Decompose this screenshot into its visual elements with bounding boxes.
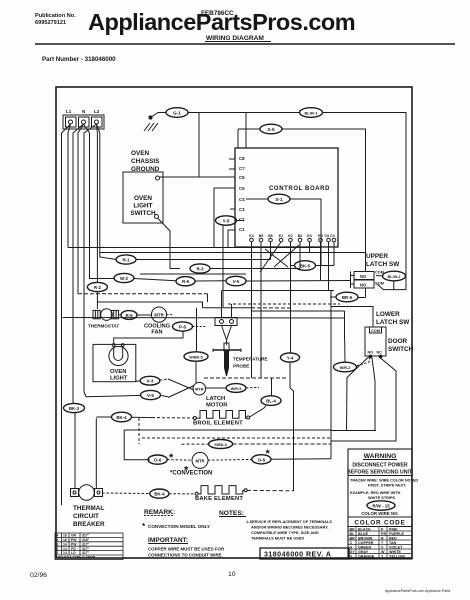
wire label BK-3	[64, 403, 85, 412]
svg-text:V-5: V-5	[147, 393, 154, 398]
wire label example R/W-15	[361, 501, 399, 516]
wire ground to G-1	[151, 113, 167, 118]
svg-text:Y-5: Y-5	[223, 219, 230, 224]
wire crossing diagonals	[274, 245, 299, 267]
wire label V-5	[86, 390, 168, 399]
wire label BK-4 broil	[96, 412, 194, 422]
svg-text:C6: C6	[239, 175, 245, 180]
svg-text:02/96: 02/96	[30, 572, 47, 579]
svg-text:OVEN: OVEN	[110, 369, 126, 375]
svg-text:Y-4: Y-4	[287, 356, 294, 361]
svg-text:1-SERVICE IF REPLACEMENT OF TE: 1-SERVICE IF REPLACEMENT OF TERMINALS	[246, 519, 332, 524]
warning tracer wire text	[350, 479, 418, 501]
svg-text:V-3: V-3	[147, 379, 154, 384]
wire label S/BK-3	[182, 358, 397, 449]
svg-text:3: 3	[57, 542, 59, 546]
wire label O-6	[148, 455, 192, 464]
wire bus y304 dashed	[228, 303, 340, 305]
svg-text:18: 18	[63, 534, 67, 538]
wire bus y290	[222, 290, 334, 292]
svg-text:PURPLE: PURPLE	[389, 532, 404, 536]
wire label S-5	[238, 124, 366, 271]
svg-text:FIRST, STRIPE NEXT.: FIRST, STRIPE NEXT.	[368, 484, 406, 488]
svg-text:P-5: P-5	[179, 325, 187, 330]
svg-text:PG: PG	[71, 547, 76, 551]
svg-text:BL/R-1: BL/R-1	[305, 111, 319, 116]
svg-text:SWITCH: SWITCH	[388, 346, 414, 353]
svg-text:B5: B5	[259, 234, 264, 238]
wire bake right run	[247, 489, 294, 491]
svg-text:R-5: R-5	[182, 279, 190, 284]
door switch	[365, 327, 414, 358]
wire label W/R-2	[334, 340, 370, 372]
svg-text:BREAKER: BREAKER	[73, 521, 105, 528]
important block	[148, 537, 225, 558]
svg-text:LIGHT: LIGHT	[133, 203, 152, 210]
svg-text:LATCH SW: LATCH SW	[366, 261, 400, 268]
svg-text:REMARK:: REMARK:	[144, 509, 175, 516]
svg-text:COMPATIBLE WIRE TYPE, SIZE AND: COMPATIBLE WIRE TYPE, SIZE AND	[251, 530, 319, 535]
wire label W/R-5	[206, 384, 259, 393]
svg-text:E1: E1	[279, 234, 283, 238]
svg-text:N: N	[82, 109, 86, 114]
svg-text:BL-4: BL-4	[266, 399, 276, 404]
revision box 318046000 REV. A	[260, 548, 349, 559]
svg-text:GRAY: GRAY	[358, 550, 369, 554]
svg-text:16: 16	[63, 538, 67, 542]
wire label W/BK-5	[184, 308, 208, 383]
svg-text:318°: 318°	[82, 538, 90, 542]
svg-text:AND/OR WIRING BECOMES NECESSAR: AND/OR WIRING BECOMES NECESSARY,	[251, 525, 328, 530]
oven light lamp	[109, 344, 128, 382]
notes block	[219, 510, 332, 541]
svg-text:C3: C3	[239, 207, 245, 212]
svg-text:MTR: MTR	[195, 387, 204, 392]
wire bus y311	[252, 310, 345, 312]
svg-text:LD: LD	[71, 551, 76, 555]
svg-text:BEFORE SERVICING UNIT.: BEFORE SERVICING UNIT.	[347, 470, 413, 476]
wire label BR-5	[330, 288, 366, 302]
color code table	[348, 517, 412, 527]
wire label R-5 mid	[176, 277, 226, 286]
wire label R-2	[87, 282, 107, 291]
svg-text:FAN: FAN	[151, 330, 162, 336]
wire W/R-2 riser	[344, 311, 346, 340]
thermostat	[88, 309, 119, 329]
wire loop to convection	[124, 430, 150, 460]
svg-text:THERMOSTAT: THERMOSTAT	[88, 324, 119, 329]
svg-text:BK-4: BK-4	[154, 492, 165, 497]
wire L1 drop a	[62, 124, 71, 505]
wire N drop d	[78, 124, 84, 294]
svg-text:1: 1	[57, 551, 59, 555]
svg-text:4: 4	[57, 534, 59, 538]
svg-text:317°: 317°	[82, 542, 90, 546]
svg-text:W/R-2: W/R-2	[340, 366, 351, 370]
svg-text:C7: C7	[239, 166, 245, 171]
svg-text:PW: PW	[71, 542, 77, 546]
wire bus y307	[203, 307, 252, 309]
svg-text:G: G	[350, 545, 353, 549]
svg-text:BLACK: BLACK	[358, 527, 371, 531]
wire R-1 riser	[97, 124, 117, 260]
wire L1 drop b	[68, 124, 71, 248]
svg-text:PR: PR	[381, 532, 386, 536]
svg-text:DOOR: DOOR	[388, 338, 408, 345]
wire label P-5	[114, 322, 206, 345]
svg-text:E2: E2	[288, 234, 292, 238]
wire label BL-4	[250, 378, 282, 417]
wire BK-3 to breaker	[74, 413, 76, 488]
svg-text:R-2: R-2	[94, 285, 102, 290]
svg-text:UPPER: UPPER	[366, 253, 388, 260]
svg-text:BK-5: BK-5	[300, 264, 311, 269]
wire BL-4 top run	[204, 377, 288, 379]
wire label R-5 thermostat	[119, 311, 152, 320]
svg-text:R/W - 15: R/W - 15	[372, 504, 390, 509]
svg-text:BL: BL	[350, 532, 356, 536]
svg-text:CHASSIS: CHASSIS	[131, 158, 160, 165]
svg-text:14: 14	[63, 547, 67, 551]
svg-text:SWITCH: SWITCH	[130, 210, 156, 217]
wire bus y294 dashed	[78, 293, 208, 295]
wire bus y430 long	[124, 429, 331, 431]
svg-text:FEB786CC: FEB786CC	[201, 10, 234, 17]
svg-text:C4: C4	[239, 197, 245, 202]
svg-text:CONNECTIONS TO CONDUIT WIRE.: CONNECTIONS TO CONDUIT WIRE.	[148, 553, 223, 558]
wire label V-5 mid	[226, 276, 351, 285]
svg-text:L1: L1	[66, 109, 72, 114]
svg-text:BLUE: BLUE	[358, 532, 369, 536]
thermal circuit breaker	[71, 485, 105, 528]
wire bus y317	[63, 317, 345, 320]
wire gauge table bottom left	[55, 533, 123, 560]
convection motor	[169, 448, 271, 477]
svg-text:PINK: PINK	[389, 527, 398, 531]
wire label V-3	[136, 376, 169, 385]
svg-text:G-1: G-1	[173, 111, 181, 116]
svg-text:*: *	[266, 448, 271, 460]
oven light enclosure box	[93, 344, 136, 381]
wire S-1 drop	[320, 248, 322, 266]
svg-text:OVEN: OVEN	[134, 195, 152, 202]
svg-text:LATCH: LATCH	[206, 396, 225, 402]
svg-text:TRACER WIRE: WIRE COLOR NOTED: TRACER WIRE: WIRE COLOR NOTED	[350, 479, 418, 483]
svg-text:GREEN: GREEN	[358, 545, 371, 549]
svg-text:*CONVECTION: *CONVECTION	[170, 471, 212, 477]
wire pin drops	[251, 242, 253, 378]
wire C5 stub	[214, 188, 235, 248]
svg-text:IMPORTANT:: IMPORTANT:	[148, 537, 188, 544]
svg-text:C9 C0: C9 C0	[324, 234, 334, 238]
svg-text:2: 2	[57, 538, 59, 542]
svg-text:*: *	[169, 452, 174, 464]
svg-text:BK-4: BK-4	[116, 415, 127, 420]
svg-text:THERMAL: THERMAL	[73, 505, 104, 512]
svg-text:DISCONNECT POWER: DISCONNECT POWER	[352, 463, 408, 469]
wire Y-5 drop	[222, 226, 224, 307]
svg-text:COM: COM	[375, 271, 384, 275]
wire label O-5	[208, 455, 331, 464]
svg-text:CONVECTION MODEL ONLY: CONVECTION MODEL ONLY	[148, 524, 210, 529]
svg-text:BK: BK	[350, 527, 356, 531]
control board left pins C8-C1	[239, 156, 245, 232]
svg-text:CONTROL BOARD: CONTROL BOARD	[269, 186, 330, 192]
wire bus y274	[140, 273, 246, 275]
wire label R-1	[116, 255, 271, 264]
svg-text:GN: GN	[71, 534, 77, 538]
svg-text:COM: COM	[371, 329, 380, 333]
svg-text:YELLOW: YELLOW	[389, 554, 405, 558]
wire label Y-4	[281, 353, 300, 362]
wire R-2 to thermostat	[96, 292, 98, 309]
svg-text:NC: NC	[377, 351, 383, 355]
control board bottom pin labels	[249, 234, 334, 238]
wire oven light switch to R-3	[158, 219, 180, 269]
wire N drop c	[73, 124, 84, 403]
svg-text:ORANGE: ORANGE	[358, 554, 375, 558]
svg-text:COLOR CODE: COLOR CODE	[354, 520, 405, 527]
svg-text:317°: 317°	[82, 547, 90, 551]
svg-text:OVEN: OVEN	[131, 150, 149, 157]
svg-text:COPPER WIRE MUST BE USED FOR: COPPER WIRE MUST BE USED FOR	[148, 547, 225, 552]
svg-text:E4: E4	[249, 234, 253, 238]
lower latch switch label	[376, 311, 410, 326]
wire label BL/R-1	[188, 108, 406, 290]
wire C7 stub	[229, 168, 235, 170]
svg-text:B6: B6	[268, 234, 273, 238]
wire label BK-4 bake	[102, 489, 195, 498]
wire bus y252	[100, 252, 365, 254]
svg-text:6995279121: 6995279121	[35, 20, 66, 26]
svg-text:BAKE ELEMENT: BAKE ELEMENT	[195, 496, 243, 502]
control board bottom pins	[250, 238, 336, 242]
svg-text:BR-5: BR-5	[342, 295, 353, 300]
svg-text:WHITE STRIPE.: WHITE STRIPE.	[368, 496, 396, 500]
svg-text:R-3: R-3	[196, 267, 204, 272]
svg-text:EXAMPLE: RED WIRE WITH: EXAMPLE: RED WIRE WITH	[350, 491, 401, 495]
svg-text:O: O	[350, 554, 353, 558]
svg-text:NO: NO	[360, 274, 367, 279]
wire probe drops	[221, 291, 223, 318]
latch motor	[193, 382, 228, 408]
svg-text:MTR: MTR	[154, 313, 164, 318]
svg-text:318046000 REV. A: 318046000 REV. A	[264, 552, 331, 559]
temperature probe connector	[215, 318, 237, 341]
svg-text:TEMPERATURE: TEMPERATURE	[233, 357, 268, 362]
svg-text:BROIL ELEMENT: BROIL ELEMENT	[193, 421, 243, 427]
oven light switch	[123, 172, 163, 223]
wire BK-4 down to breaker right	[95, 418, 97, 488]
wire C6 to G-1 junction	[199, 176, 235, 178]
svg-text:CIRCUIT: CIRCUIT	[73, 513, 99, 520]
svg-text:E5: E5	[318, 234, 322, 238]
svg-text:Publication No.: Publication No.	[35, 13, 76, 19]
svg-text:*: *	[142, 522, 146, 531]
svg-text:S-5: S-5	[267, 127, 275, 132]
wire label W-2	[114, 273, 176, 282]
wire C1 stub	[228, 230, 235, 248]
svg-text:C8: C8	[239, 156, 245, 161]
broil element	[193, 411, 250, 427]
svg-text:NO: NO	[360, 283, 367, 288]
svg-text:O-5: O-5	[258, 457, 266, 462]
svg-text:LOWER: LOWER	[376, 311, 400, 318]
latch motor crossing wires	[168, 379, 194, 398]
svg-text:R-1: R-1	[122, 258, 130, 263]
wire L2 drop e	[84, 124, 97, 397]
control board	[235, 148, 338, 247]
svg-text:BR: BR	[350, 536, 356, 540]
wire label R-3	[190, 264, 300, 273]
wire dashed y438	[142, 437, 332, 439]
svg-text:10: 10	[228, 571, 236, 578]
svg-text:TAN: TAN	[389, 541, 397, 545]
svg-text:E3: E3	[307, 234, 311, 238]
svg-text:WHITE: WHITE	[389, 550, 401, 554]
wire bus y264 BK-5	[291, 261, 335, 271]
wire dashed S/BK-3 feed	[138, 418, 140, 444]
svg-text:V-5: V-5	[233, 279, 240, 284]
oven chassis ground symbol	[131, 116, 160, 173]
svg-text:GY: GY	[350, 550, 356, 554]
warning box	[347, 449, 413, 559]
svg-text:NO: NO	[368, 351, 374, 355]
svg-text:14: 14	[63, 551, 67, 555]
svg-text:COLOR WIRE NO.: COLOR WIRE NO.	[361, 511, 399, 516]
wire W-2 riser	[84, 124, 115, 279]
svg-text:2: 2	[57, 547, 59, 551]
svg-text:RED: RED	[389, 536, 397, 540]
wire G-1 to oven light switch	[159, 113, 199, 178]
svg-text:R: R	[381, 536, 384, 540]
wire label Y-5	[216, 216, 245, 225]
wire bus y302	[97, 302, 202, 308]
svg-text:S/BK-3: S/BK-3	[214, 443, 226, 447]
wire right bus x331	[330, 291, 332, 459]
bake element	[195, 486, 247, 502]
svg-text:W-2: W-2	[120, 276, 129, 281]
svg-text:TERMINALS MUST BE USED: TERMINALS MUST BE USED	[251, 536, 304, 541]
svg-text:MOTOR: MOTOR	[206, 403, 228, 409]
upper latch switch	[351, 253, 401, 288]
svg-text:PW: PW	[71, 538, 77, 542]
svg-text:317°: 317°	[82, 534, 90, 538]
svg-text:317°: 317°	[82, 551, 90, 555]
svg-text:14: 14	[63, 542, 67, 546]
svg-text:S-1: S-1	[275, 197, 283, 202]
wire gauge table text	[56, 534, 96, 560]
svg-text:BROWN: BROWN	[358, 536, 373, 540]
wire bus y247	[68, 247, 321, 249]
svg-text:C2: C2	[239, 217, 245, 222]
svg-text:BL/W-2: BL/W-2	[388, 275, 401, 279]
terminal block L1 N L2	[63, 109, 104, 129]
wire C8 stub	[229, 158, 235, 160]
svg-text:MTR: MTR	[195, 458, 204, 463]
remark block	[142, 509, 210, 531]
svg-text:C5: C5	[239, 186, 245, 191]
svg-text:Part Number - 318046000: Part Number - 318046000	[42, 56, 116, 63]
header publication number	[35, 13, 76, 26]
svg-text:W/R-5: W/R-5	[231, 387, 242, 391]
svg-text:COPPER: COPPER	[358, 541, 374, 545]
svg-text:O-6: O-6	[154, 458, 162, 463]
wire label S-1 on C4	[246, 194, 321, 262]
svg-text:W: W	[381, 550, 385, 554]
wire label BL/W-2	[376, 271, 406, 289]
wire label G-1	[166, 108, 188, 118]
svg-text:NOTES:: NOTES:	[219, 510, 244, 517]
svg-text:W/BK-5: W/BK-5	[189, 356, 203, 360]
svg-text:L2: L2	[94, 109, 100, 114]
header rule	[35, 43, 455, 45]
svg-text:AppliancePartsPros.com Applian: AppliancePartsPros.com Appliance Parts	[385, 589, 451, 593]
wire C3 stub	[230, 208, 235, 210]
wire L2 drop f to thermostat	[96, 124, 99, 282]
svg-text:C1: C1	[239, 227, 245, 232]
wire door NC1 drop	[347, 357, 369, 431]
svg-text:PROBE: PROBE	[233, 364, 249, 369]
svg-text:BK-3: BK-3	[69, 406, 80, 411]
svg-text:AWG/CSA TYPE & TEMP.: AWG/CSA TYPE & TEMP.	[56, 556, 96, 560]
svg-text:C: C	[350, 541, 353, 545]
temperature probe	[213, 340, 268, 376]
cooling fan motor	[144, 307, 173, 336]
wire lower latch COM feed	[331, 307, 373, 328]
color code table text	[350, 527, 406, 558]
svg-text:COM: COM	[375, 282, 384, 286]
main frame	[56, 87, 412, 558]
svg-text:LATCH SW: LATCH SW	[376, 319, 410, 326]
svg-text:WIRING DIAGRAM: WIRING DIAGRAM	[206, 35, 264, 42]
svg-text:LIGHT: LIGHT	[110, 376, 128, 382]
svg-text:VIOLET: VIOLET	[389, 545, 403, 549]
svg-text:B2: B2	[298, 234, 303, 238]
